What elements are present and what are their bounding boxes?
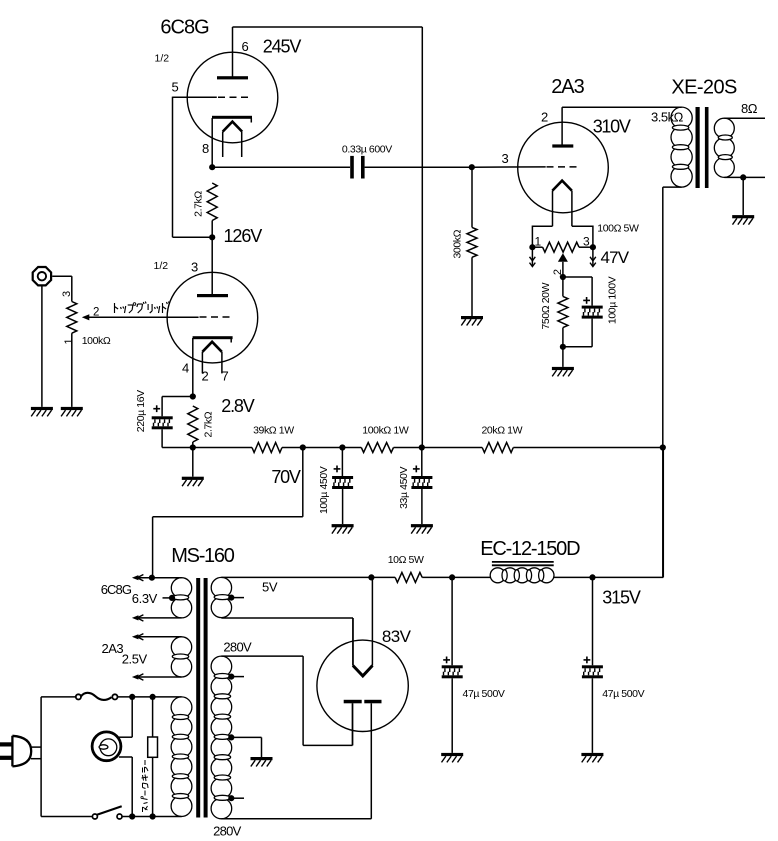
svg-text:280V: 280V xyxy=(213,823,242,838)
svg-text:83V: 83V xyxy=(382,627,412,646)
svg-text:8Ω: 8Ω xyxy=(741,101,758,116)
svg-text:1/2: 1/2 xyxy=(154,260,169,272)
svg-text:6: 6 xyxy=(242,39,249,54)
svg-text:750Ω 20W: 750Ω 20W xyxy=(540,282,552,329)
svg-text:3: 3 xyxy=(61,291,73,297)
svg-text:0.33µ 600V: 0.33µ 600V xyxy=(342,144,392,156)
svg-text:100µ 100V: 100µ 100V xyxy=(607,276,619,324)
svg-text:6C8G: 6C8G xyxy=(160,17,209,39)
svg-text:1: 1 xyxy=(63,338,75,344)
svg-text:100µ 450V: 100µ 450V xyxy=(318,466,330,514)
svg-text:4: 4 xyxy=(182,361,189,376)
svg-text:2.7kΩ: 2.7kΩ xyxy=(192,191,204,217)
svg-text:2.7kΩ: 2.7kΩ xyxy=(203,411,215,437)
svg-text:39kΩ 1W: 39kΩ 1W xyxy=(253,425,294,437)
svg-text:3: 3 xyxy=(191,260,198,275)
svg-text:70V: 70V xyxy=(271,467,301,487)
svg-text:EC-12-150D: EC-12-150D xyxy=(480,538,580,560)
svg-text:1: 1 xyxy=(535,235,542,249)
svg-text:100kΩ: 100kΩ xyxy=(82,335,111,347)
svg-text:5: 5 xyxy=(172,80,179,95)
svg-text:2.8V: 2.8V xyxy=(221,396,254,416)
svg-text:280V: 280V xyxy=(223,639,252,654)
svg-text:7: 7 xyxy=(222,369,229,384)
svg-text:47µ 500V: 47µ 500V xyxy=(602,688,644,700)
svg-text:3: 3 xyxy=(583,235,590,249)
svg-text:245V: 245V xyxy=(263,37,302,57)
svg-text:2A3: 2A3 xyxy=(551,76,584,98)
svg-text:126V: 126V xyxy=(224,226,263,246)
svg-text:2A3: 2A3 xyxy=(102,641,124,656)
svg-text:2: 2 xyxy=(552,269,564,275)
svg-text:3.5kΩ: 3.5kΩ xyxy=(651,110,684,125)
svg-text:6C8G: 6C8G xyxy=(101,582,132,597)
svg-text:300kΩ: 300kΩ xyxy=(451,229,463,258)
svg-text:10Ω 5W: 10Ω 5W xyxy=(388,554,424,566)
svg-text:1/2: 1/2 xyxy=(155,53,170,65)
svg-text:220µ 16V: 220µ 16V xyxy=(135,390,147,432)
svg-text:8: 8 xyxy=(202,141,209,156)
svg-text:6.3V: 6.3V xyxy=(132,591,158,606)
svg-text:315V: 315V xyxy=(602,588,641,608)
svg-text:100Ω 5W: 100Ω 5W xyxy=(597,223,639,235)
svg-text:3: 3 xyxy=(502,151,509,166)
svg-text:310V: 310V xyxy=(593,117,631,137)
svg-text:33µ 450V: 33µ 450V xyxy=(398,467,410,509)
svg-text:2.5V: 2.5V xyxy=(122,651,148,666)
svg-text:2: 2 xyxy=(541,110,548,125)
svg-text:47µ 500V: 47µ 500V xyxy=(463,688,505,700)
svg-text:5V: 5V xyxy=(262,580,278,595)
svg-text:XE-20S: XE-20S xyxy=(671,76,737,98)
svg-text:2: 2 xyxy=(202,369,209,384)
svg-text:2: 2 xyxy=(93,307,99,319)
svg-text:47V: 47V xyxy=(601,248,630,267)
svg-text:MS-160: MS-160 xyxy=(171,545,234,567)
svg-text:100kΩ 1W: 100kΩ 1W xyxy=(362,425,409,437)
svg-text:20kΩ 1W: 20kΩ 1W xyxy=(481,425,522,437)
